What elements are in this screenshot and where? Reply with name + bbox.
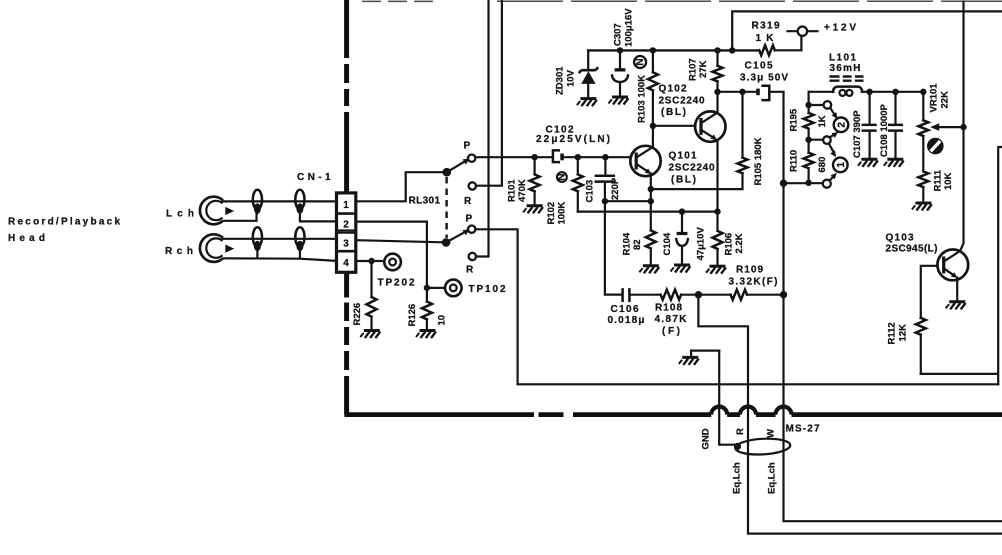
relay RL301 contact set 2 common xyxy=(442,238,451,247)
svg-text:R: R xyxy=(735,428,746,435)
svg-text:R112: R112 xyxy=(887,322,898,344)
svg-text:MS-27: MS-27 xyxy=(786,424,820,435)
ground ZD301 xyxy=(577,99,597,107)
wire shield 2 to pin2 xyxy=(300,214,337,222)
node R107 rail xyxy=(714,47,720,53)
node shield ground xyxy=(734,443,741,450)
wire to TP102 xyxy=(427,287,445,289)
svg-text:10V: 10V xyxy=(566,69,577,87)
wire Q102 emitter down xyxy=(716,140,718,212)
label R111 10K xyxy=(933,169,955,191)
svg-text:4.87K: 4.87K xyxy=(655,314,688,325)
wire collector node to C105 xyxy=(718,91,757,93)
wire mid contact link xyxy=(809,139,823,141)
node R102 xyxy=(575,154,581,160)
wire R112 to right edge riser xyxy=(921,147,1002,384)
svg-text:R226: R226 xyxy=(352,303,363,326)
svg-text:470K: 470K xyxy=(517,179,528,202)
node R101 xyxy=(531,154,537,160)
svg-text:C103: C103 xyxy=(585,180,596,203)
svg-text:2SC945(L): 2SC945(L) xyxy=(886,244,938,255)
svg-text:Q102: Q102 xyxy=(659,84,687,95)
label Q103 2SC945(L) xyxy=(886,233,938,255)
svg-text:R107: R107 xyxy=(688,58,699,81)
relay arm 2 xyxy=(446,229,469,242)
svg-text:1: 1 xyxy=(836,162,847,168)
resistor R107 xyxy=(713,50,723,91)
core of L101 xyxy=(830,77,864,81)
node Q102 base xyxy=(650,123,656,129)
node row C emitter xyxy=(648,198,654,204)
capacitor C102 xyxy=(553,150,564,162)
left board border (thick dash-dot vertical) xyxy=(344,0,349,415)
label R112 12K xyxy=(887,322,909,344)
capacitor C108 xyxy=(889,92,902,159)
svg-text:82: 82 xyxy=(632,239,643,250)
svg-text:1K: 1K xyxy=(817,115,828,127)
wire Rch return to pin4 xyxy=(224,250,337,261)
svg-text:P: P xyxy=(464,141,471,152)
wire Q103 emitter xyxy=(956,278,958,301)
ground R226 xyxy=(360,331,380,339)
ground R104 xyxy=(639,266,659,274)
svg-text:47μ10V: 47μ10V xyxy=(696,227,707,261)
svg-text:100μ16V: 100μ16V xyxy=(624,8,635,47)
resistor R111 xyxy=(918,171,928,202)
wire +12V feed top xyxy=(732,11,1002,50)
resistor R101 xyxy=(530,157,540,205)
node ladder bottom / W line xyxy=(780,180,787,187)
contact R set2 xyxy=(469,253,476,260)
svg-text:10: 10 xyxy=(437,315,448,326)
svg-text:C104: C104 xyxy=(662,232,673,255)
relay link dashed xyxy=(445,177,447,238)
label C307 100u16V xyxy=(613,8,635,47)
wire Q101 collector to Q102 base node xyxy=(652,126,654,147)
label R109 3.32K(F) xyxy=(729,265,778,288)
switch arm 1a xyxy=(829,144,836,158)
svg-text:Eq.Lch: Eq.Lch xyxy=(732,462,743,494)
shield connector on Lch wire (2) xyxy=(295,190,304,215)
screwdriver adjust mark xyxy=(927,138,944,155)
wire pin4 to TP202 node xyxy=(356,260,384,262)
resistor R112 xyxy=(916,318,926,374)
svg-text:1: 1 xyxy=(343,200,349,211)
svg-text:R104: R104 xyxy=(622,232,633,255)
svg-text:4: 4 xyxy=(343,258,349,269)
svg-text:R110: R110 xyxy=(789,150,800,172)
svg-text:VR101: VR101 xyxy=(929,83,940,113)
wire contact R2 riser xyxy=(476,0,489,257)
resistor R104 xyxy=(646,230,656,264)
cable bundle ellipse xyxy=(735,437,791,455)
wire pin1 to relay common xyxy=(356,172,443,201)
svg-text:TP102: TP102 xyxy=(469,284,506,295)
ground C107 xyxy=(858,159,878,167)
node TP102 xyxy=(424,285,430,291)
test point TP202 xyxy=(384,254,401,271)
capacitor C106 xyxy=(623,289,630,300)
ground stub chassis xyxy=(691,351,719,357)
svg-text:0.018μ: 0.018μ xyxy=(608,315,645,326)
svg-text:Eq.Lch: Eq.Lch xyxy=(767,462,778,494)
wire contact R1 riser xyxy=(476,0,502,186)
resistor R108 xyxy=(661,290,681,300)
wire right feed vertical xyxy=(960,2,963,251)
svg-text:ZD301: ZD301 xyxy=(555,66,566,95)
svg-text:R111: R111 xyxy=(933,169,944,191)
test point TP102 xyxy=(445,280,462,297)
resistor R109 xyxy=(731,290,747,300)
svg-text:100K: 100K xyxy=(557,202,568,225)
node C107 xyxy=(866,89,872,95)
wire pin3 to relay common 2 xyxy=(356,240,443,242)
svg-text:1 K: 1 K xyxy=(756,33,775,44)
svg-text:C307: C307 xyxy=(613,23,624,46)
relay RL301 contact set 1 common xyxy=(443,168,452,177)
svg-text:GND: GND xyxy=(701,428,712,449)
contact P set1 xyxy=(468,155,475,162)
node wiper feed xyxy=(960,124,966,130)
ground symbol stub xyxy=(679,357,699,365)
node C103 top xyxy=(602,154,608,160)
node rail/+12V feed xyxy=(729,47,735,53)
resistor R226 xyxy=(367,261,377,330)
transistor Q102 xyxy=(695,111,725,141)
capacitor C103 xyxy=(596,157,614,181)
wire GND lead to connector xyxy=(719,351,736,445)
svg-text:10K: 10K xyxy=(943,172,954,190)
wire Rch signal to pin3 xyxy=(223,238,337,240)
svg-text:2SC2240: 2SC2240 xyxy=(659,96,705,107)
label C106 0.018u xyxy=(608,304,645,326)
svg-text:R103 100K: R103 100K xyxy=(637,75,648,123)
wire C106 to R108 xyxy=(631,294,661,296)
label R108 4.87K (F) xyxy=(655,303,688,338)
resistor R319 xyxy=(759,36,801,55)
label R319 1K xyxy=(752,20,780,44)
inductor L101 xyxy=(809,87,924,96)
label R104 82 xyxy=(622,232,644,255)
ground C108 xyxy=(884,159,904,167)
wire row C link xyxy=(605,200,651,202)
resistor R110 xyxy=(804,153,814,169)
svg-text:R106: R106 xyxy=(724,233,735,256)
ground C104 xyxy=(671,265,691,273)
record/playback head Lch xyxy=(200,197,234,225)
switch arm 2b xyxy=(830,132,839,138)
label ZD301 10V xyxy=(555,66,577,95)
node ladder bottom xyxy=(805,180,811,186)
svg-text:W: W xyxy=(766,429,777,438)
label Q102 2SC2240 (BL) xyxy=(659,84,705,119)
zener diode ZD301 xyxy=(579,50,598,97)
ground Q103 emitter xyxy=(946,302,966,310)
wire top contact link xyxy=(809,104,824,106)
svg-text:L101: L101 xyxy=(829,53,857,64)
svg-text:Record/Playback: Record/Playback xyxy=(8,217,120,228)
label R101 470K xyxy=(507,179,529,202)
selected mark N for R102 xyxy=(556,172,567,182)
node C104 xyxy=(679,208,685,214)
node row B emitter xyxy=(648,186,654,192)
wire Q102 base xyxy=(653,125,695,127)
capacitor C105 electrolytic xyxy=(756,86,783,100)
node ladder mid contact xyxy=(805,137,811,143)
svg-text:R195: R195 xyxy=(789,108,800,131)
node Q102 collector / C105 xyxy=(714,89,720,95)
wire Lch signal to pin1 xyxy=(223,200,337,202)
resistor R195 xyxy=(804,113,814,129)
label Q101 2SC2240 (BL) xyxy=(669,151,715,186)
svg-text:N: N xyxy=(556,173,567,180)
svg-text:R101: R101 xyxy=(507,179,518,202)
svg-text:3.32K(F): 3.32K(F) xyxy=(729,277,778,288)
wiper VR101 xyxy=(930,123,963,131)
svg-text:+12V: +12V xyxy=(824,23,856,34)
svg-text:RL301: RL301 xyxy=(409,196,441,207)
svg-text:2: 2 xyxy=(837,122,848,128)
ground R126 xyxy=(416,331,436,339)
svg-text:N: N xyxy=(635,58,646,65)
label C105 3.3u 50V xyxy=(740,61,788,84)
svg-text:Q103: Q103 xyxy=(886,233,914,244)
wire R109 to W line xyxy=(747,294,784,296)
capacitor C104 electrolytic xyxy=(676,212,688,264)
svg-text:22K: 22K xyxy=(940,91,951,109)
shield connector on Lch wire (1) xyxy=(253,190,262,215)
switch position 2 xyxy=(834,118,849,133)
contact P set2 xyxy=(468,226,475,233)
bottom board border (thick dashed horizontal with wire hops) xyxy=(344,407,1002,415)
ground R101 xyxy=(523,206,543,214)
svg-text:36mH: 36mH xyxy=(830,63,861,74)
wire Q101 emitter chain xyxy=(650,174,652,231)
wire Q103 base xyxy=(921,266,938,318)
wire Lch return to shield 1 xyxy=(224,213,257,221)
node R103 rail xyxy=(650,47,656,53)
svg-text:2: 2 xyxy=(343,220,349,231)
svg-text:3: 3 xyxy=(343,238,349,249)
wire C103 bottom to C106 feed xyxy=(605,182,621,294)
contact EQ mid xyxy=(823,136,831,144)
svg-text:2SC2240: 2SC2240 xyxy=(669,163,715,174)
contact EQ top xyxy=(824,101,832,109)
wire pin2 down to R126 node xyxy=(356,222,427,302)
wire row B to R105 xyxy=(651,173,743,189)
wire P1 signal line to Q101 base xyxy=(475,156,631,158)
svg-text:R108: R108 xyxy=(655,303,682,314)
label VR101 22K xyxy=(929,83,951,113)
resistor R103 xyxy=(648,50,658,125)
svg-text:R102: R102 xyxy=(546,202,557,225)
svg-text:R105 180K: R105 180K xyxy=(753,137,764,185)
capacitor C107 xyxy=(863,92,876,159)
svg-text:Rch: Rch xyxy=(165,246,193,257)
relay arm 1 xyxy=(447,159,470,173)
resistor R102 xyxy=(573,157,583,211)
transistor Q103 xyxy=(937,250,968,281)
record/playback head Rch xyxy=(200,234,234,262)
svg-text:TP202: TP202 xyxy=(378,278,415,289)
wire ladder bottom to W line xyxy=(784,182,823,184)
svg-text:2.2K: 2.2K xyxy=(734,233,745,253)
label Record/Playback Head xyxy=(8,217,120,245)
transistor Q101 xyxy=(630,146,660,176)
svg-text:Q101: Q101 xyxy=(669,151,697,162)
top board border (thin dashed, cropped) xyxy=(362,0,1002,2)
connector CN-1 xyxy=(337,193,356,272)
svg-text:12K: 12K xyxy=(898,324,909,342)
wire B+ rail xyxy=(588,49,759,51)
switch arm 1b xyxy=(830,173,837,181)
svg-text:3.3μ 50V: 3.3μ 50V xyxy=(740,73,788,84)
svg-text:220P: 220P xyxy=(610,177,621,200)
label R107 27K xyxy=(688,58,710,81)
ground R111 xyxy=(912,203,932,211)
switch arm 2a xyxy=(830,108,838,119)
label R106 2.2K xyxy=(724,233,746,256)
svg-text:(F): (F) xyxy=(662,326,680,337)
svg-text:R: R xyxy=(464,196,472,207)
wire Rch line box bottom xyxy=(475,229,998,384)
node L101 right / VR101 xyxy=(920,89,926,95)
wire R tap jog down xyxy=(698,295,1002,534)
resistor R106 xyxy=(713,212,723,266)
switch position 1 xyxy=(833,158,848,173)
ground C307 xyxy=(609,97,629,105)
wire R108 to R109 xyxy=(681,294,731,296)
contact R set1 xyxy=(469,182,476,189)
resistor R105 xyxy=(738,92,748,173)
node pin4/TP202 xyxy=(368,258,374,264)
svg-text:C108 1000P: C108 1000P xyxy=(879,104,890,157)
wire row D feedback xyxy=(578,211,718,213)
svg-text:27K: 27K xyxy=(698,60,709,78)
svg-text:R109: R109 xyxy=(736,265,763,276)
svg-text:CN-1: CN-1 xyxy=(297,172,331,183)
node C307 rail xyxy=(617,47,623,53)
wire EQ ladder rail xyxy=(807,92,809,183)
svg-text:R126: R126 xyxy=(407,304,418,327)
node ladder top contact xyxy=(805,102,811,108)
svg-text:Lch: Lch xyxy=(166,209,194,220)
node R106 top xyxy=(714,208,720,214)
shield connector on Rch wire (2) xyxy=(295,227,304,252)
svg-text:R: R xyxy=(466,265,474,276)
svg-text:680: 680 xyxy=(817,157,828,173)
ground R106 xyxy=(706,266,726,274)
svg-text:C107 390P: C107 390P xyxy=(852,110,863,158)
resistor R126 xyxy=(422,302,432,330)
node row C left xyxy=(602,198,608,204)
potentiometer VR101 xyxy=(918,92,928,172)
terminal +12V xyxy=(788,27,818,36)
wire W output line xyxy=(784,92,1002,521)
label R102 100K xyxy=(546,202,568,225)
capacitor C307 electrolytic xyxy=(612,50,628,96)
node W line R109 xyxy=(780,291,787,298)
node R tap xyxy=(695,291,702,298)
shield connector on Rch wire (1) xyxy=(253,227,262,252)
node C108 xyxy=(892,89,898,95)
svg-text:P: P xyxy=(466,214,473,225)
node R105 top xyxy=(739,89,745,95)
selected mark N for R103 xyxy=(634,56,646,68)
wire Q102 collector riser xyxy=(716,92,718,113)
contact EQ bottom xyxy=(823,180,831,188)
